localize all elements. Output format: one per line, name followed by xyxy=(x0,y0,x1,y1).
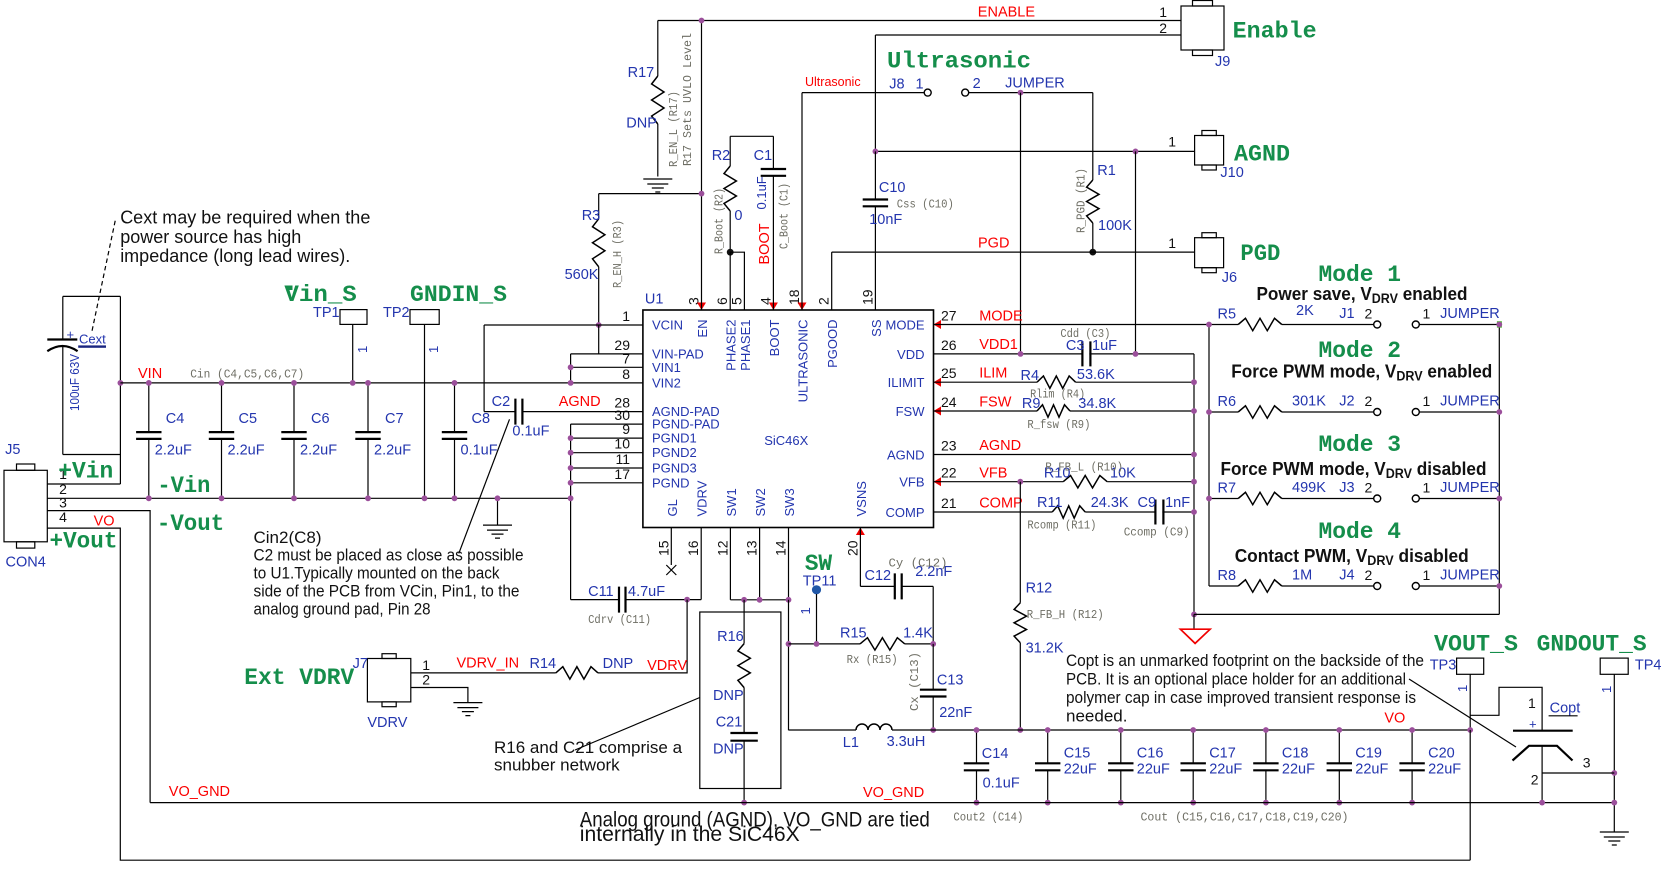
svg-text:Cext: Cext xyxy=(79,331,106,346)
svg-text:3.3uH: 3.3uH xyxy=(887,734,926,750)
wire VCIN pin1 horizontal xyxy=(484,324,643,326)
wire AGND vertical down to C3 wire xyxy=(1135,151,1137,354)
svg-text:100uF 63V: 100uF 63V xyxy=(67,354,82,411)
svg-text:R3: R3 xyxy=(582,208,601,224)
wire PGND vertical xyxy=(570,424,572,599)
junction R8 row xyxy=(1496,583,1502,589)
svg-text:4: 4 xyxy=(59,509,67,525)
svg-text:Ultrasonic: Ultrasonic xyxy=(805,75,861,89)
svg-text:34.8K: 34.8K xyxy=(1078,396,1116,412)
junction C7 rails xyxy=(365,380,371,386)
svg-text:1: 1 xyxy=(355,346,370,353)
svg-text:1: 1 xyxy=(1455,685,1470,692)
svg-text:L1: L1 xyxy=(843,735,859,751)
svg-text:2.2uF: 2.2uF xyxy=(155,443,192,459)
svg-text:JUMPER: JUMPER xyxy=(1440,480,1500,496)
svg-text:R16: R16 xyxy=(717,629,744,645)
svg-text:TP3: TP3 xyxy=(1430,658,1457,674)
svg-text:1: 1 xyxy=(1423,567,1431,583)
junction ground stub xyxy=(495,495,501,501)
resistor R12 31.2K R_FB_H xyxy=(1014,482,1104,730)
resistor R4 53.6K Rlim xyxy=(934,367,1195,402)
svg-text:snubber network: snubber network xyxy=(494,756,620,775)
svg-text:499K: 499K xyxy=(1292,480,1326,496)
wire VIN rail xyxy=(120,382,643,384)
svg-text:VDRV_IN: VDRV_IN xyxy=(457,656,520,672)
junction TP1/VIN xyxy=(350,380,356,386)
junction SW snubber xyxy=(741,597,747,603)
wire R14 to VDRV net xyxy=(598,600,687,673)
svg-text:needed.: needed. xyxy=(1066,707,1127,726)
wire PGOOD vertical from U1 pin2 xyxy=(831,252,833,310)
wire ULTRASONIC to J8 pin1 xyxy=(802,92,924,94)
svg-text:power source has high: power source has high xyxy=(120,227,301,247)
wire PGND17 horizontal xyxy=(571,482,643,484)
resistor R9 34.8K R_fsw xyxy=(934,396,1195,432)
resistor R3 560K xyxy=(565,194,625,325)
resistor R7 499K xyxy=(1209,480,1374,505)
svg-text:1: 1 xyxy=(798,607,813,614)
junction C20 rails xyxy=(1409,727,1415,733)
svg-text:2.2uF: 2.2uF xyxy=(374,443,411,459)
wire PGND9 horizontal xyxy=(571,437,643,439)
svg-text:16: 16 xyxy=(685,540,701,556)
wire C3 to AGND corner xyxy=(1089,353,1194,355)
wire VDD from U1 pin26 to C3 xyxy=(934,353,1083,355)
capacitor C4 2.2uF xyxy=(136,383,192,498)
resistor R17 (DNP) xyxy=(626,21,695,177)
pointer line to Cext xyxy=(92,221,115,331)
capacitor C8 0.1uF xyxy=(442,383,498,498)
svg-text:Rx (R15): Rx (R15) xyxy=(847,653,898,667)
note snubber network xyxy=(494,738,683,775)
junction Cext/VIN rail xyxy=(118,380,124,386)
svg-text:C20: C20 xyxy=(1428,746,1455,762)
svg-text:2: 2 xyxy=(1365,306,1373,322)
svg-text:VDD1: VDD1 xyxy=(979,337,1018,353)
svg-text:J8: J8 xyxy=(889,77,904,93)
svg-text:COMP: COMP xyxy=(979,496,1023,512)
junction R12/VO rail xyxy=(1017,727,1023,733)
svg-text:0.1uF: 0.1uF xyxy=(754,176,769,209)
svg-text:R8: R8 xyxy=(1218,568,1237,584)
resistor R2 0 ohm R_Boot xyxy=(712,136,774,254)
resistor R6 301K xyxy=(1209,394,1374,419)
svg-text:to U1.Typically mounted on the: to U1.Typically mounted on the back xyxy=(254,564,500,583)
junction C14 rails xyxy=(974,727,980,733)
svg-text:R17 Sets UVLO Level: R17 Sets UVLO Level xyxy=(681,33,695,166)
svg-text:R9: R9 xyxy=(1022,396,1041,412)
svg-text:2.2uF: 2.2uF xyxy=(228,443,265,459)
svg-text:JUMPER: JUMPER xyxy=(1440,306,1500,322)
U1 left pin names and numbers xyxy=(614,308,719,490)
svg-text:5: 5 xyxy=(728,297,744,305)
wire mode-select right vertical xyxy=(1498,325,1500,615)
capacitor C19 22uF xyxy=(1327,730,1389,803)
junction EN/R3 xyxy=(699,191,705,197)
svg-text:PCB. It is an optional place h: PCB. It is an optional place holder for … xyxy=(1066,670,1406,689)
svg-text:2: 2 xyxy=(1365,480,1373,496)
svg-text:VDD: VDD xyxy=(897,347,924,362)
svg-text:1: 1 xyxy=(622,308,630,324)
svg-text:PGND: PGND xyxy=(652,475,690,490)
svg-text:CON4: CON4 xyxy=(6,555,46,571)
pointer line to Copt xyxy=(1409,679,1516,747)
svg-text:2K: 2K xyxy=(1296,303,1314,319)
junction C9/AGND xyxy=(1191,509,1197,515)
svg-text:+: + xyxy=(1529,717,1537,732)
svg-text:EN: EN xyxy=(695,320,710,338)
svg-text:SW2: SW2 xyxy=(753,488,768,516)
svg-text:VDRV: VDRV xyxy=(695,480,710,516)
svg-text:4.7uF: 4.7uF xyxy=(628,584,665,600)
junction PGND pin17 xyxy=(568,480,574,486)
svg-text:Ext VDRV: Ext VDRV xyxy=(244,665,355,692)
svg-text:C1: C1 xyxy=(754,148,773,164)
junction PGND pin9 xyxy=(568,435,574,441)
svg-text:SiC46X: SiC46X xyxy=(764,433,808,448)
wire J9 pin2 horizontal xyxy=(875,34,1181,36)
svg-text:-Vin: -Vin xyxy=(157,473,210,500)
svg-text:31.2K: 31.2K xyxy=(1026,640,1064,656)
svg-text:C11: C11 xyxy=(588,584,614,600)
svg-text:20: 20 xyxy=(844,540,860,556)
svg-text:Cout2 (C14): Cout2 (C14) xyxy=(953,811,1023,825)
svg-text:C6: C6 xyxy=(311,411,330,427)
connector J9 Enable xyxy=(1159,1,1316,71)
svg-text:22: 22 xyxy=(941,465,957,481)
svg-text:0: 0 xyxy=(734,208,742,224)
junction C5 rails xyxy=(219,380,225,386)
svg-text:R14: R14 xyxy=(530,656,557,672)
svg-text:R5: R5 xyxy=(1218,307,1237,323)
svg-text:23: 23 xyxy=(941,438,957,454)
svg-text:1nF: 1nF xyxy=(1165,495,1190,511)
junction C13/VO rail xyxy=(930,727,936,733)
svg-text:internally in the SiC46X: internally in the SiC46X xyxy=(580,823,800,846)
svg-text:Rcomp (R11): Rcomp (R11) xyxy=(1027,519,1096,533)
junction TP4/pin3 wire xyxy=(1611,770,1617,776)
test point TP4 GNDOUT_S xyxy=(1537,631,1662,832)
svg-text:AGND: AGND xyxy=(559,394,601,410)
capacitor C14 0.1uF xyxy=(964,730,1020,803)
svg-text:PGND1: PGND1 xyxy=(652,431,697,446)
svg-text:DNP: DNP xyxy=(626,115,657,131)
junction R3/VCIN xyxy=(596,322,602,328)
junction C8 rails xyxy=(452,380,458,386)
test point TP1 Vin_S xyxy=(284,282,370,383)
svg-text:J5: J5 xyxy=(5,442,20,458)
svg-text:analog ground pad, Pin 28: analog ground pad, Pin 28 xyxy=(254,599,431,618)
svg-text:Cdrv (C11): Cdrv (C11) xyxy=(588,613,651,627)
svg-text:21: 21 xyxy=(941,495,957,511)
svg-text:301K: 301K xyxy=(1292,394,1326,410)
junction Copt/VO_GND xyxy=(1539,800,1545,806)
junction R10/AGND xyxy=(1191,479,1197,485)
junction R4/AGND xyxy=(1191,379,1197,385)
svg-text:Mode 4: Mode 4 xyxy=(1319,519,1402,546)
connector J7 Ext VDRV xyxy=(244,654,430,731)
svg-text:C9: C9 xyxy=(1138,495,1157,511)
junction TP4/VO_GND xyxy=(1611,800,1617,806)
note Cin2 C2 placement xyxy=(254,528,524,619)
svg-text:R_Boot (R2): R_Boot (R2) xyxy=(713,188,727,254)
svg-text:53.6K: 53.6K xyxy=(1077,367,1115,383)
wire PGND11 horizontal xyxy=(571,467,643,469)
svg-text:MODE: MODE xyxy=(979,309,1023,325)
svg-text:VFB: VFB xyxy=(979,465,1007,481)
wire R2 to U1 pin6 xyxy=(729,252,731,310)
capacitor C11 4.7uF Cdrv xyxy=(571,584,702,627)
svg-text:Css (C10): Css (C10) xyxy=(897,198,954,212)
svg-text:TP4: TP4 xyxy=(1635,658,1662,674)
svg-text:R_EN_L (R17): R_EN_L (R17) xyxy=(667,91,681,167)
svg-text:1: 1 xyxy=(916,77,924,93)
wire AGND pin23 to AGND vertical xyxy=(934,454,1195,456)
svg-text:C5: C5 xyxy=(239,411,258,427)
test point TP2 GNDIN_S xyxy=(383,282,507,498)
svg-text:COMP: COMP xyxy=(886,505,925,520)
svg-text:PHASE1: PHASE1 xyxy=(738,320,753,371)
snubber DNP outline box xyxy=(700,612,781,789)
svg-text:C14: C14 xyxy=(982,746,1009,762)
svg-text:C21: C21 xyxy=(716,715,743,731)
svg-text:1.4K: 1.4K xyxy=(903,625,933,641)
svg-text:26: 26 xyxy=(941,337,957,353)
svg-text:Force PWM mode, VDRV disabled: Force PWM mode, VDRV disabled xyxy=(1221,458,1487,481)
connector J10 AGND xyxy=(1168,131,1290,181)
svg-text:DNP: DNP xyxy=(713,688,744,704)
svg-text:Ultrasonic: Ultrasonic xyxy=(887,49,1031,76)
wire VO rail xyxy=(892,729,1470,731)
svg-text:J7: J7 xyxy=(353,656,368,672)
svg-text:C7: C7 xyxy=(385,411,404,427)
svg-text:VO: VO xyxy=(1384,711,1405,727)
capacitor C1 0.1uF C_Boot xyxy=(754,136,792,310)
junction C3/J10 vertical xyxy=(1133,351,1139,357)
svg-text:R4: R4 xyxy=(1021,368,1040,384)
svg-text:3: 3 xyxy=(59,495,67,511)
svg-text:24.3K: 24.3K xyxy=(1091,495,1129,511)
wire SW3 pin14 vertical xyxy=(788,528,790,600)
inductor L1 3.3uH xyxy=(789,724,926,751)
junction TP2/-Vin rail xyxy=(422,495,428,501)
svg-text:VO_GND: VO_GND xyxy=(169,784,230,800)
wire J7 pin1 VDRV_IN xyxy=(411,672,556,674)
svg-text:1: 1 xyxy=(1168,235,1176,251)
svg-text:side of the PCB from VCin, Pin: side of the PCB from VCin, Pin1, to the xyxy=(254,582,520,601)
svg-text:Cx (C13): Cx (C13) xyxy=(908,652,922,711)
junction PGND pin10 xyxy=(568,450,574,456)
capacitor C18 22uF xyxy=(1253,730,1315,803)
svg-text:22uF: 22uF xyxy=(1282,762,1315,778)
svg-text:2.2uF: 2.2uF xyxy=(300,443,337,459)
svg-text:R_EN_H (R3): R_EN_H (R3) xyxy=(611,220,625,288)
junction C21/VO_GND xyxy=(741,800,747,806)
capacitor C9 1nF Ccomp xyxy=(1124,495,1194,539)
svg-text:PGND3: PGND3 xyxy=(652,461,697,476)
capacitor C13 22nF Cx xyxy=(908,644,972,730)
resistor R8 1M xyxy=(1209,568,1374,593)
svg-text:VO_GND: VO_GND xyxy=(863,785,924,801)
svg-text:25: 25 xyxy=(941,365,957,381)
junction C4 rails xyxy=(146,380,152,386)
wire EN vertical from U1 pin3 to ENABLE rail xyxy=(701,21,703,311)
svg-text:8: 8 xyxy=(622,366,630,382)
junction R2 bottom to pins 5 and 6 xyxy=(727,249,734,256)
junction SW/R15 branch xyxy=(786,641,792,647)
svg-text:Force PWM mode, VDRV enabled: Force PWM mode, VDRV enabled xyxy=(1231,361,1492,384)
svg-text:C17: C17 xyxy=(1209,746,1236,762)
node marker green square at J1 jumper corner xyxy=(1497,321,1502,328)
resistor R1 100K xyxy=(1075,93,1133,253)
svg-text:VDRV: VDRV xyxy=(367,715,407,731)
svg-text:1M: 1M xyxy=(1292,568,1312,584)
junction SW pin14 xyxy=(786,597,792,603)
svg-text:impedance (long lead wires).: impedance (long lead wires). xyxy=(120,246,350,266)
svg-text:R16 and C21 comprise a: R16 and C21 comprise a xyxy=(494,738,683,757)
svg-text:AGND: AGND xyxy=(887,448,925,463)
junction C12/R15/C13 xyxy=(930,641,936,647)
header J8 Ultrasonic jumper xyxy=(887,49,1065,97)
svg-text:R17: R17 xyxy=(628,65,655,81)
ground stub on -Vin rail xyxy=(497,498,499,525)
wire PGND-PAD pin30 horizontal xyxy=(571,423,643,425)
junction R1/PGD xyxy=(1089,249,1096,256)
svg-text:22uF: 22uF xyxy=(1428,762,1461,778)
capacitor C2 0.1uF xyxy=(484,394,643,440)
svg-text:Ccomp (C9): Ccomp (C9) xyxy=(1124,525,1190,539)
U1 right pin names and numbers xyxy=(886,308,957,521)
svg-text:19: 19 xyxy=(859,289,875,305)
svg-text:Cout (C15,C16,C17,C18,C19,C20): Cout (C15,C16,C17,C18,C19,C20) xyxy=(1141,811,1349,825)
junction R7 row xyxy=(1496,496,1502,502)
svg-text:U1: U1 xyxy=(645,292,664,308)
wire AGND horizontal to J10 xyxy=(875,150,1194,152)
junction SW pin13 xyxy=(757,597,763,603)
junction pin8 VIN rail xyxy=(568,380,574,386)
svg-text:2: 2 xyxy=(1531,772,1539,788)
junction C17 rails xyxy=(1190,727,1196,733)
svg-text:100K: 100K xyxy=(1098,218,1132,234)
junction C16 rails xyxy=(1118,727,1124,733)
svg-text:R15: R15 xyxy=(840,625,867,641)
svg-text:22uF: 22uF xyxy=(1137,762,1170,778)
svg-text:Enable: Enable xyxy=(1233,19,1317,46)
wire J7 pin2 to ground xyxy=(411,688,468,703)
jumper J4 xyxy=(1339,567,1499,590)
wire VO_GND rail xyxy=(150,802,1614,804)
svg-text:2: 2 xyxy=(1365,393,1373,409)
junction AGND/SS vertical xyxy=(873,149,879,155)
wire VCIN to VIN-PAD vertical xyxy=(598,325,600,354)
svg-text:R_PGD (R1): R_PGD (R1) xyxy=(1075,168,1089,233)
wire ENABLE horizontal to J9 xyxy=(658,20,1181,22)
svg-text:Cdd (C3): Cdd (C3) xyxy=(1060,327,1110,341)
svg-text:ILIMIT: ILIMIT xyxy=(888,375,925,390)
svg-text:C18: C18 xyxy=(1282,746,1309,762)
svg-text:R6: R6 xyxy=(1218,394,1237,410)
svg-text:VCIN: VCIN xyxy=(652,318,683,333)
svg-text:MODE: MODE xyxy=(886,318,925,333)
wire pin29/7/8 vertical xyxy=(570,354,572,383)
svg-text:22nF: 22nF xyxy=(939,705,972,721)
svg-text:Cext may be required when the: Cext may be required when the xyxy=(120,208,370,228)
svg-text:C10: C10 xyxy=(879,180,906,196)
ground AGND red triangle symbol xyxy=(1193,614,1195,629)
svg-text:Vin_S: Vin_S xyxy=(284,282,356,309)
svg-text:R_FB_L (R10): R_FB_L (R10) xyxy=(1045,461,1123,475)
svg-text:R1: R1 xyxy=(1097,163,1116,179)
svg-text:10nF: 10nF xyxy=(869,212,902,228)
svg-text:PGD: PGD xyxy=(1240,241,1280,268)
junction TP3/VO rail xyxy=(1467,727,1473,733)
junction AGND/C3 vertical xyxy=(1133,149,1139,155)
svg-text:12: 12 xyxy=(714,540,730,556)
svg-text:1: 1 xyxy=(1423,480,1431,496)
svg-text:1: 1 xyxy=(1528,695,1536,711)
svg-text:VIN1: VIN1 xyxy=(652,360,681,375)
svg-text:C15: C15 xyxy=(1064,746,1091,762)
junction C6 rails xyxy=(291,380,297,386)
junction R6 row xyxy=(1496,409,1502,415)
capacitor C3 1uF Cdd xyxy=(1060,327,1117,366)
connector J6 PGD xyxy=(1168,233,1280,286)
capacitor C15 22uF xyxy=(1035,730,1097,803)
wire SW2 pin13 vertical xyxy=(759,528,761,600)
capacitor C6 2.2uF xyxy=(281,383,337,498)
svg-text:2: 2 xyxy=(422,672,430,688)
wire SW vertical down to L1 xyxy=(788,600,790,730)
wire Cext right vertical to J5 pin1 xyxy=(119,296,121,484)
svg-text:1: 1 xyxy=(1599,686,1614,693)
wire ULTRASONIC vertical from U1 pin18 xyxy=(801,93,803,310)
capacitor C16 22uF xyxy=(1108,730,1170,803)
svg-text:C13: C13 xyxy=(937,673,964,689)
test point TP3 VOUT_S xyxy=(1430,631,1518,730)
svg-text:JUMPER: JUMPER xyxy=(1440,568,1500,584)
junction R5 row xyxy=(1496,322,1502,328)
svg-text:J3: J3 xyxy=(1339,480,1354,496)
capacitor C17 22uF xyxy=(1181,730,1243,803)
capacitor C5 2.2uF xyxy=(209,383,265,498)
svg-text:TP11: TP11 xyxy=(803,574,837,590)
junction PGND pin11 xyxy=(568,465,574,471)
svg-text:1: 1 xyxy=(1159,4,1167,20)
svg-text:PGND2: PGND2 xyxy=(652,445,697,460)
svg-text:1: 1 xyxy=(1168,133,1176,149)
svg-text:J9: J9 xyxy=(1215,54,1230,70)
wire MODE from U1 pin27 to mode block xyxy=(934,324,1210,326)
note Cext may be required xyxy=(120,208,370,266)
svg-text:PGD: PGD xyxy=(978,236,1009,252)
svg-text:11: 11 xyxy=(615,451,630,467)
wire J5 pin1 +Vin xyxy=(47,483,120,485)
test point TP11 SW xyxy=(798,551,836,644)
svg-text:FSW: FSW xyxy=(979,394,1012,410)
svg-text:ENABLE: ENABLE xyxy=(978,5,1036,21)
svg-text:J10: J10 xyxy=(1220,165,1243,181)
pointer line to C2 xyxy=(459,419,510,553)
svg-text:GNDOUT_S: GNDOUT_S xyxy=(1537,631,1647,658)
svg-text:R_fsw (R9): R_fsw (R9) xyxy=(1027,418,1090,432)
svg-text:1: 1 xyxy=(1423,393,1431,409)
U1 top pin names and numbers xyxy=(686,289,884,402)
svg-text:15: 15 xyxy=(655,540,671,556)
wire mode-select left vertical xyxy=(1208,325,1210,587)
svg-text:+: + xyxy=(67,327,75,342)
svg-text:0.1uF: 0.1uF xyxy=(461,443,498,459)
